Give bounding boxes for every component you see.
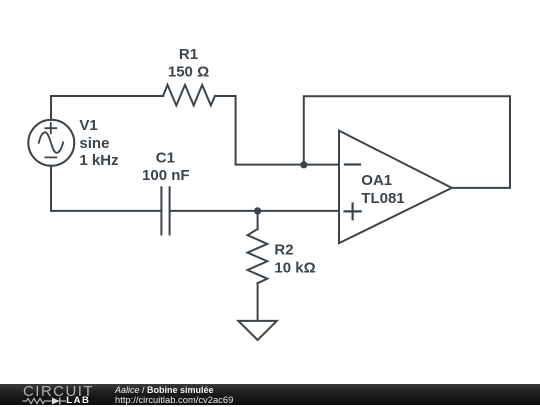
svg-text:150 Ω: 150 Ω [168, 64, 209, 81]
op-amp OA1 triangle [339, 131, 452, 244]
ground [238, 321, 276, 340]
V1 minus sign [45, 156, 56, 158]
svg-text:C1: C1 [156, 150, 175, 167]
footer url [115, 395, 233, 404]
resistor R2 [248, 229, 268, 283]
footer title [115, 386, 214, 395]
svg-text:R1: R1 [179, 46, 198, 63]
op-amp plus input sign [345, 204, 361, 220]
svg-text:R2: R2 [274, 242, 293, 259]
voltage source V1 [28, 120, 74, 166]
wire R1 to corner and down [215, 96, 339, 165]
wire R2 top lead [257, 211, 259, 229]
svg-text:OA1: OA1 [361, 172, 392, 189]
svg-text:1 kHz: 1 kHz [79, 152, 118, 169]
footer bar [0, 384, 540, 405]
svg-text:10 kΩ: 10 kΩ [274, 260, 315, 277]
wire V1 bottom lead [51, 166, 161, 211]
logo LAB [66, 396, 90, 406]
logo CIRCUIT [23, 384, 94, 399]
wire V1 top lead [50, 96, 52, 120]
V1 sine wave [39, 132, 63, 152]
svg-text:sine: sine [79, 135, 109, 152]
svg-text:V1: V1 [79, 117, 97, 134]
V1 plus sign [45, 123, 56, 133]
svg-text:TL081: TL081 [361, 190, 404, 207]
wire feedback loop [304, 96, 510, 188]
svg-text:100 nF: 100 nF [142, 167, 190, 184]
wire top rail from V1 to R1 [51, 95, 163, 97]
capacitor C1 [161, 187, 169, 234]
wire bottom rail C1 to op-amp [170, 210, 339, 212]
junction node at feedback / minus input [300, 161, 307, 168]
resistor R1 [163, 85, 215, 106]
junction node at R2 / plus rail [254, 207, 261, 214]
wire R2 bottom lead [257, 283, 259, 320]
op-amp minus input sign [345, 163, 360, 165]
logo symbol resistor-diode [20, 395, 90, 407]
